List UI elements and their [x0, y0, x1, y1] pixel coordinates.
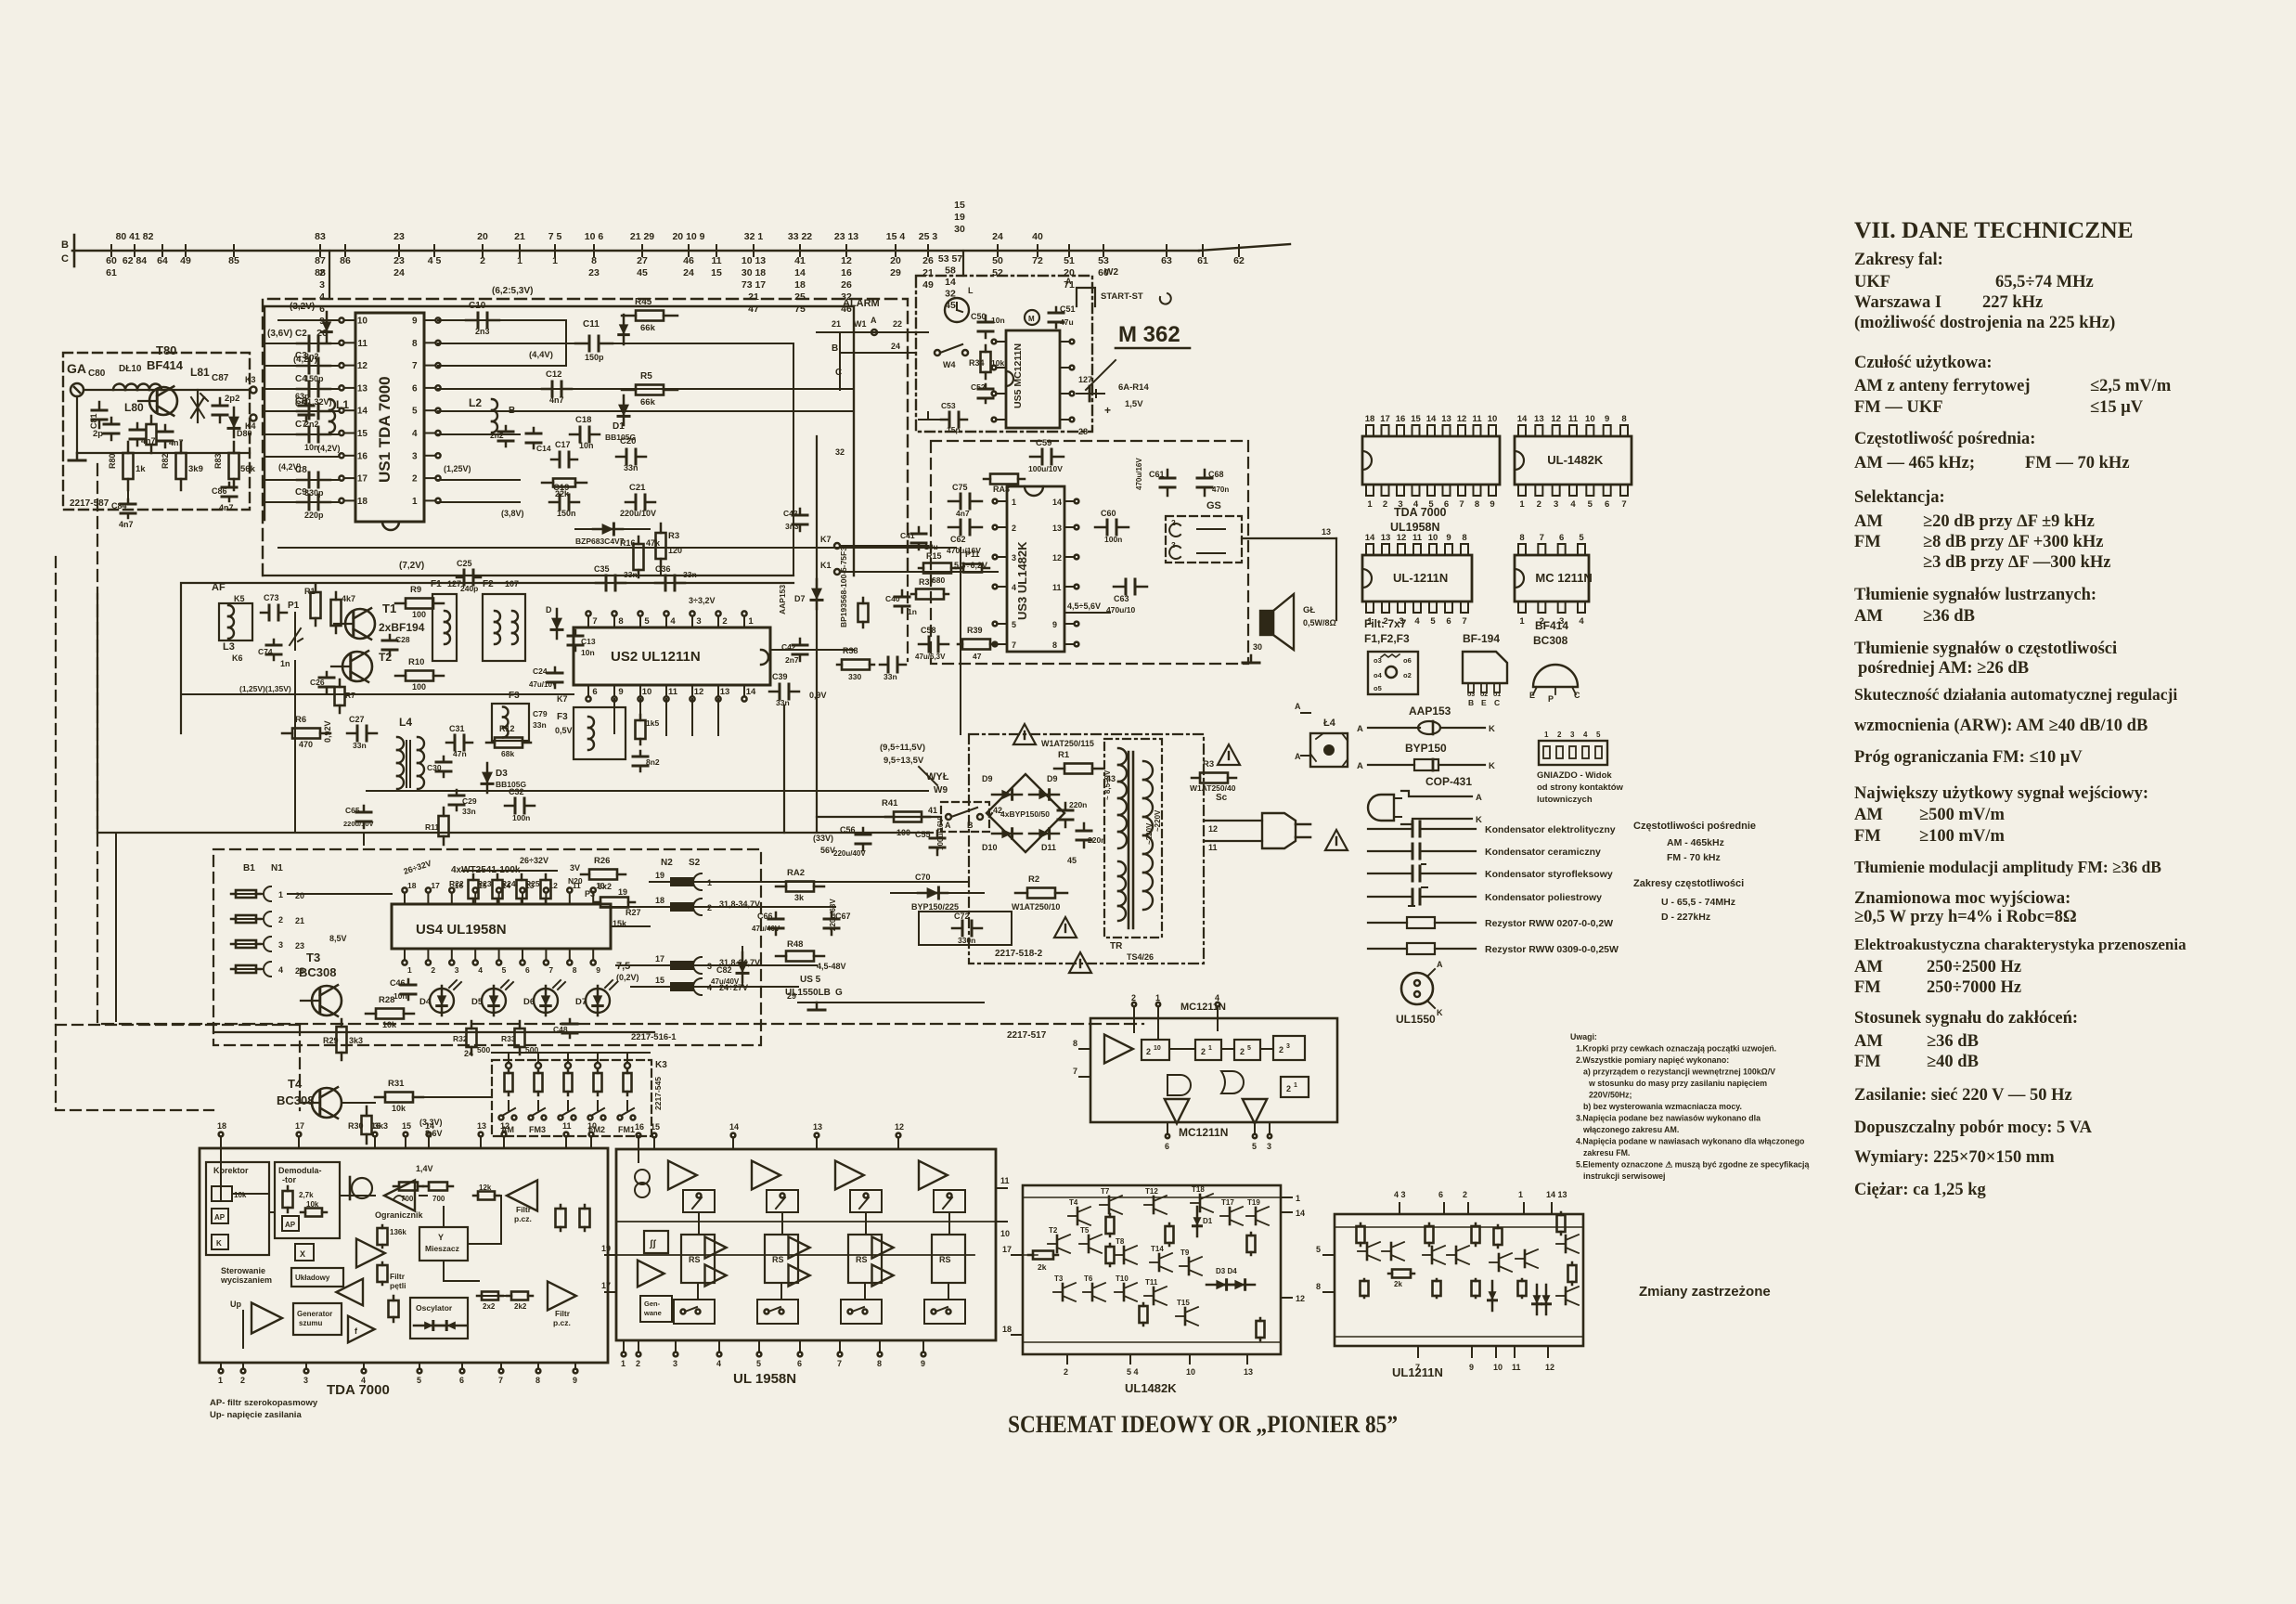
svg-text:≥100 mV/m: ≥100 mV/m: [1919, 827, 2005, 846]
diode D8 BYP150/225: [891, 892, 984, 894]
svg-text:Sc: Sc: [1216, 793, 1228, 803]
filter F1 127: [432, 594, 457, 661]
module box 2217-517 outline: [97, 464, 1143, 1024]
svg-text:107: 107: [505, 579, 519, 589]
svg-text:2: 2: [1012, 524, 1016, 533]
resistor R30 3k3: [366, 1106, 368, 1116]
UL1958N cell 3 bottom switch: [841, 1300, 882, 1324]
svg-text:13: 13: [1534, 414, 1544, 424]
svg-text:9: 9: [1446, 533, 1451, 543]
svg-text:5: 5: [1252, 1142, 1257, 1151]
svg-text:12: 12: [1296, 1294, 1305, 1303]
svg-text:T15: T15: [1177, 1299, 1190, 1307]
svg-text:RS: RS: [856, 1255, 868, 1264]
svg-text:AP- filtr szerokopasmowy: AP- filtr szerokopasmowy: [210, 1398, 318, 1408]
UL1482K diodes: [1206, 1284, 1236, 1287]
capacitor C57 220n pair: [1064, 803, 1067, 810]
svg-text:12k: 12k: [479, 1184, 492, 1192]
diode zener US5: [742, 952, 744, 982]
capacitor C75 4n7: [948, 500, 961, 503]
svg-text:500: 500: [477, 1045, 490, 1054]
filter F2 107: [483, 594, 525, 661]
svg-text:5.Elementy oznaczone ⚠ musz: 5.Elementy oznaczone ⚠ muszą być zgodne …: [1576, 1160, 1809, 1170]
svg-text:9: 9: [921, 1359, 925, 1368]
svg-text:220u/40V: 220u/40V: [833, 849, 866, 858]
svg-text:8: 8: [1073, 1039, 1077, 1048]
svg-text:Oscylator: Oscylator: [416, 1303, 453, 1313]
svg-text:o2: o2: [1403, 671, 1412, 679]
svg-text:2: 2: [412, 474, 418, 485]
svg-text:C35: C35: [594, 564, 610, 574]
svg-text:10n: 10n: [581, 648, 595, 657]
svg-text:0,5V: 0,5V: [555, 726, 573, 735]
svg-text:C63: C63: [1114, 594, 1129, 603]
svg-text:C24: C24: [533, 666, 548, 676]
svg-text:A: A: [1295, 702, 1301, 711]
inductor L1: [329, 399, 335, 410]
transistor T18 UL1482K: [1199, 1195, 1202, 1211]
svg-text:R1: R1: [304, 587, 316, 596]
svg-text:1k: 1k: [135, 464, 146, 474]
UL1958N sigma box: [644, 1231, 668, 1253]
svg-text:12: 12: [500, 1121, 510, 1131]
inductor L80: [113, 384, 125, 391]
capacitor C24 47u: [554, 667, 557, 673]
svg-text:220u/10V: 220u/10V: [343, 820, 374, 828]
svg-text:3: 3: [1267, 1142, 1271, 1151]
switch W4: [935, 350, 940, 356]
svg-text:2: 2: [1557, 731, 1562, 739]
svg-text:15: 15: [651, 1122, 660, 1132]
svg-text:C9: C9: [295, 487, 307, 498]
svg-text:2: 2: [431, 965, 435, 975]
svg-text:C27: C27: [349, 715, 365, 724]
svg-text:FM — UKF: FM — UKF: [1854, 398, 1943, 417]
wire 7,2V rail upper: [278, 547, 956, 549]
capacitor C12 4n7: [542, 388, 552, 391]
svg-text:3V: 3V: [570, 863, 580, 873]
svg-text:F3: F3: [557, 712, 568, 722]
svg-text:US3 UL1482K: US3 UL1482K: [1015, 541, 1029, 620]
UL1958N cell 1 amp: [668, 1161, 697, 1190]
capacitor C87: [219, 398, 222, 406]
svg-text:14 13: 14 13: [1546, 1190, 1567, 1199]
TDA7000 amp small: [336, 1279, 363, 1306]
UL1482K resistors: [1028, 1254, 1033, 1257]
svg-text:Kondensator styrofleksowy: Kondensator styrofleksowy: [1485, 869, 1613, 880]
svg-text:D3 D4: D3 D4: [1216, 1267, 1237, 1275]
svg-text:11: 11: [562, 1121, 572, 1131]
svg-text:Ł4: Ł4: [1323, 718, 1336, 729]
svg-text:Elektroakustyczna charakterys: Elektroakustyczna charakterystyka przeno…: [1854, 936, 2186, 953]
svg-text:T18: T18: [1192, 1185, 1205, 1194]
svg-text:1: 1: [1012, 498, 1016, 507]
resistor R2b 4k7: [335, 592, 338, 600]
svg-text:G: G: [835, 988, 843, 998]
svg-text:C: C: [61, 253, 69, 265]
resistor R3 120: [660, 524, 663, 533]
svg-text:C39: C39: [772, 672, 788, 681]
svg-text:2217-516-1: 2217-516-1: [631, 1032, 677, 1042]
svg-text:2n2: 2n2: [490, 431, 504, 440]
svg-text:o2: o2: [1480, 692, 1488, 698]
svg-text:ʃʃ: ʃʃ: [649, 1239, 656, 1249]
inductor L2: [492, 399, 497, 410]
transistor T2 UL1482K: [1056, 1235, 1059, 1252]
capacitor C60 100n: [1095, 526, 1107, 529]
connector GNIAZDO: [1539, 741, 1607, 765]
svg-text:C31: C31: [449, 724, 465, 733]
svg-text:w stosunku do masy przy za: w stosunku do masy przy zasilaniu napięc…: [1588, 1079, 1767, 1088]
svg-text:Generator: Generator: [297, 1310, 332, 1318]
svg-text:P11: P11: [965, 550, 980, 559]
svg-text:3: 3: [303, 1376, 308, 1385]
svg-text:2n7: 2n7: [785, 655, 799, 665]
resistor R1 WTAT250/115: [1054, 768, 1064, 770]
svg-text:K5: K5: [234, 594, 245, 603]
svg-text:GNIAZDO - Widok: GNIAZDO - Widok: [1537, 770, 1612, 781]
svg-text:100: 100: [412, 682, 426, 692]
svg-text:8x2: 8x2: [598, 882, 612, 891]
svg-text:5: 5: [1596, 731, 1601, 739]
svg-text:17: 17: [295, 1121, 304, 1131]
op-amp U5 US5 MC1211N: [1006, 330, 1060, 428]
harness tick numbers: [106, 231, 1245, 315]
svg-text:10n: 10n: [991, 316, 1005, 325]
svg-text:32 1: 32 1: [744, 231, 764, 242]
svg-text:Rezystor RWW 0207-0-0,2W: Rezystor RWW 0207-0-0,2W: [1485, 918, 1613, 929]
wire AM bus vertical: [115, 833, 117, 1021]
antenna jack GA: [71, 383, 84, 396]
svg-text:3: 3: [278, 940, 283, 950]
svg-text:2: 2: [722, 616, 727, 627]
resistor R2 WTAT250/10: [1015, 892, 1027, 895]
svg-text:6: 6: [459, 1376, 464, 1385]
svg-text:~ 8,5÷9V: ~ 8,5÷9V: [1103, 770, 1112, 800]
svg-text:Czułość użytkowa:: Czułość użytkowa:: [1854, 354, 1993, 372]
resistor R33 500: [519, 1021, 522, 1028]
svg-text:L4: L4: [399, 716, 412, 729]
resistor R1b: [315, 585, 317, 592]
transistor T3 BC308: [312, 986, 342, 1015]
svg-text:16: 16: [1396, 414, 1406, 424]
UL1958N cell 3 RS box: [848, 1235, 882, 1283]
capacitor C81: [110, 418, 113, 424]
warning triangle plug: [1325, 830, 1348, 850]
svg-text:4: 4: [319, 291, 325, 303]
capacitor C61 470u/16V: [1167, 470, 1169, 478]
capacitor C31 47n: [446, 742, 455, 744]
svg-text:7: 7: [1459, 499, 1464, 510]
svg-text:33 22: 33 22: [788, 231, 812, 242]
svg-text:wane: wane: [643, 1309, 662, 1317]
svg-text:FM1: FM1: [618, 1125, 635, 1134]
transistor T8 UL1482K: [1123, 1247, 1126, 1263]
svg-text:T4: T4: [1069, 1198, 1078, 1207]
svg-text:C84: C84: [111, 501, 127, 511]
svg-text:UL1958N: UL1958N: [1390, 521, 1440, 534]
svg-text:GŁ: GŁ: [1303, 605, 1315, 615]
svg-text:M 362: M 362: [1118, 322, 1180, 347]
svg-text:D4: D4: [419, 997, 432, 1007]
svg-text:15p: 15p: [947, 425, 961, 434]
svg-text:330n: 330n: [958, 936, 975, 945]
svg-text:B: B: [509, 406, 515, 416]
svg-text:10k: 10k: [392, 1104, 406, 1113]
svg-text:17: 17: [357, 474, 368, 485]
svg-text:2: 2: [1064, 1367, 1068, 1377]
capacitor C26/R7: [326, 672, 329, 678]
svg-text:14: 14: [945, 277, 956, 288]
svg-text:1n: 1n: [908, 607, 917, 616]
TDA7000 korektor box: [206, 1162, 269, 1255]
svg-text:150n: 150n: [557, 509, 576, 518]
svg-text:8: 8: [412, 339, 418, 349]
svg-text:AP: AP: [214, 1213, 226, 1222]
svg-text:SCHEMAT IDEOWY OR „PIONIER: SCHEMAT IDEOWY OR „PIONIER 85”: [1008, 1411, 1398, 1438]
UL1958N cell 2 amp: [752, 1161, 780, 1190]
wire mid bus: [97, 594, 98, 833]
svg-text:C75: C75: [952, 483, 968, 492]
transistor T4 UL1482K: [1077, 1208, 1079, 1224]
svg-text:22: 22: [893, 319, 902, 329]
UL1958N cell 1 bottom switch: [674, 1300, 715, 1324]
svg-text:1,4V: 1,4V: [416, 1164, 433, 1173]
svg-text:A: A: [1357, 724, 1363, 734]
svg-text:6: 6: [797, 1359, 802, 1368]
svg-text:1: 1: [1518, 1190, 1523, 1199]
svg-text:~220V: ~220V: [1154, 809, 1162, 832]
svg-text:3k9: 3k9: [188, 464, 203, 474]
svg-text:33n: 33n: [533, 720, 547, 730]
capacitor C34 8n2: [639, 751, 642, 757]
oscillator coil F3b: [574, 707, 626, 759]
US1 pins: [344, 319, 355, 321]
svg-text:4,5-48V: 4,5-48V: [817, 962, 846, 971]
svg-text:11: 11: [1208, 843, 1218, 852]
svg-text:B: B: [1468, 698, 1474, 707]
svg-text:R34: R34: [969, 358, 985, 368]
package TDA7000/UL1958N DIP18: [1362, 436, 1500, 485]
resistor R83 56k: [233, 442, 236, 453]
svg-text:AM z anteny ferrytowej: AM z anteny ferrytowej: [1854, 377, 2031, 395]
TDA7000 ogranicznik amp: [384, 1181, 415, 1211]
op-amp U4 US4 UL1958N IC body: [392, 904, 611, 949]
svg-text:W1AT250/40: W1AT250/40: [1190, 783, 1236, 793]
svg-text:D11: D11: [1041, 843, 1056, 852]
svg-text:GA: GA: [67, 361, 86, 376]
TDA7000 resistor v: [393, 1296, 395, 1300]
capacitor C73 1000: [261, 612, 269, 614]
svg-text:47k: 47k: [646, 538, 661, 548]
transistor T7 UL1482K: [1108, 1197, 1111, 1213]
svg-text:9: 9: [1490, 499, 1494, 510]
svg-text:1: 1: [621, 1359, 626, 1368]
svg-text:41: 41: [928, 806, 937, 815]
svg-text:1k5: 1k5: [646, 718, 659, 728]
svg-text:(1,25V): (1,25V): [444, 464, 471, 473]
svg-text:11: 11: [1512, 1363, 1521, 1372]
svg-text:C50: C50: [971, 312, 987, 321]
svg-text:10: 10: [1000, 1229, 1010, 1238]
svg-text:1: 1: [1519, 499, 1525, 510]
capacitor C86 4n7: [228, 483, 231, 487]
svg-text:lutowniczych: lutowniczych: [1537, 795, 1593, 805]
svg-text:250÷7000 Hz: 250÷7000 Hz: [1927, 978, 2021, 997]
potentiometer P11: [956, 567, 963, 570]
svg-text:C72: C72: [954, 912, 970, 921]
svg-text:C28: C28: [395, 635, 410, 644]
wire US1 left pin row 4: [264, 433, 339, 435]
capacitor C8: [297, 479, 309, 482]
svg-text:1: 1: [748, 616, 754, 627]
svg-text:7: 7: [837, 1359, 842, 1368]
capacitor C32 100n: [505, 805, 515, 808]
wire US1 left pin row 6: [264, 479, 339, 481]
resistor R34 10k: [985, 345, 987, 352]
capacitor C40 1n: [901, 590, 904, 597]
transistor T5 UL1482K: [1088, 1235, 1090, 1252]
svg-text:R22: R22: [449, 879, 464, 888]
svg-text:7: 7: [1415, 1363, 1420, 1372]
svg-text:(33V): (33V): [813, 834, 833, 843]
capacitor C58 47u/6,3V: [919, 643, 929, 646]
svg-text:C10: C10: [469, 301, 486, 311]
svg-text:p.cz.: p.cz.: [514, 1214, 532, 1223]
svg-text:7: 7: [412, 361, 418, 371]
svg-text:2: 2: [636, 1359, 640, 1368]
capacitor C57b 33n: [880, 664, 888, 666]
svg-text:UL1550: UL1550: [1396, 1013, 1436, 1026]
svg-text:17: 17: [431, 881, 440, 890]
svg-text:RS: RS: [939, 1255, 951, 1264]
op-amp U1 US1 TDA7000 IC body: [355, 313, 424, 522]
warning triangle D8: [1054, 917, 1077, 938]
wire US1 left pin row 7: [264, 501, 339, 503]
svg-text:3: 3: [1012, 553, 1016, 563]
UL1958N cell 1 switch box: [683, 1190, 715, 1212]
UL1958N cell 3 amp: [835, 1161, 864, 1190]
svg-text:33n: 33n: [462, 807, 476, 816]
svg-text:2p: 2p: [93, 429, 103, 439]
svg-text:3: 3: [455, 965, 459, 975]
svg-text:Selektancja:: Selektancja:: [1854, 488, 1945, 507]
svg-text:US4 UL1958N: US4 UL1958N: [416, 922, 507, 938]
svg-text:C60: C60: [1101, 509, 1116, 518]
transformer TR: [1104, 739, 1162, 938]
svg-text:240p: 240p: [460, 584, 478, 593]
transistor T15 UL1482K: [1184, 1308, 1187, 1325]
resistor R16 47k trim: [638, 537, 640, 544]
svg-text:8: 8: [1475, 499, 1479, 510]
UL1211N resistors: [1360, 1223, 1362, 1226]
svg-text:3k: 3k: [794, 893, 805, 902]
svg-text:T80: T80: [156, 343, 176, 357]
svg-text:23: 23: [295, 941, 304, 951]
svg-text:8: 8: [535, 1376, 540, 1385]
svg-text:COP-431: COP-431: [1425, 775, 1472, 788]
US4 pins bottom: [404, 949, 406, 960]
svg-text:K7: K7: [557, 694, 568, 704]
svg-text:BF-194: BF-194: [1463, 632, 1500, 645]
svg-text:S2: S2: [689, 858, 701, 868]
capacitor C82 4n7: [136, 423, 139, 430]
svg-text:T17: T17: [1221, 1198, 1234, 1207]
svg-text:R6: R6: [295, 715, 306, 725]
capacitor C53 15p: [941, 419, 949, 421]
wire K3 top link: [492, 1052, 650, 1054]
svg-text:5 4: 5 4: [1127, 1367, 1139, 1377]
svg-text:10: 10: [357, 317, 368, 327]
svg-text:BF414: BF414: [147, 358, 184, 372]
svg-text:C70: C70: [915, 873, 931, 882]
svg-text:Skuteczność działania automa: Skuteczność działania automatycznej regu…: [1854, 685, 2177, 704]
svg-text:C65: C65: [345, 806, 360, 815]
UL1958N cell 2 couple amps: [705, 1236, 727, 1258]
svg-text:8,5V: 8,5V: [329, 934, 347, 943]
svg-text:Mieszacz: Mieszacz: [425, 1244, 459, 1253]
svg-text:10: 10: [1493, 1363, 1503, 1372]
svg-text:R11: R11: [425, 822, 439, 832]
svg-text:15: 15: [954, 200, 965, 211]
svg-text:R31: R31: [388, 1079, 405, 1089]
svg-text:10k: 10k: [306, 1200, 319, 1209]
resistor R48 2x6: [776, 955, 786, 958]
svg-text:BYP150/225: BYP150/225: [911, 902, 959, 912]
svg-text:R3: R3: [668, 531, 679, 541]
svg-text:23: 23: [588, 267, 600, 278]
svg-text:14: 14: [746, 687, 756, 697]
capacitor C74 1n: [273, 640, 276, 645]
svg-text:C62: C62: [950, 535, 966, 544]
svg-text:100: 100: [412, 610, 426, 619]
svg-text:N2: N2: [661, 858, 673, 868]
svg-text:K1: K1: [820, 561, 832, 570]
svg-text:8: 8: [618, 616, 623, 627]
svg-text:4n7: 4n7: [219, 503, 234, 512]
svg-text:14: 14: [1052, 498, 1062, 507]
svg-text:23 13: 23 13: [834, 231, 858, 242]
svg-text:10n: 10n: [393, 991, 407, 1001]
svg-text:3: 3: [1570, 731, 1575, 739]
svg-text:C81: C81: [89, 413, 98, 429]
svg-text:X: X: [300, 1249, 305, 1259]
svg-text:Tłumienie sygnałów o często: Tłumienie sygnałów o częstotliwości: [1854, 640, 2117, 658]
module box FM front-end dashed: [263, 299, 908, 576]
varicap D80: [233, 407, 236, 437]
svg-text:2.Wszystkie pomiary napięć: 2.Wszystkie pomiary napięć wykonano:: [1576, 1055, 1729, 1065]
svg-text:C18: C18: [575, 415, 591, 425]
svg-text:13: 13: [1441, 414, 1451, 424]
svg-text:R30: R30: [348, 1121, 364, 1131]
svg-text:W1AT250/10: W1AT250/10: [1012, 902, 1060, 912]
svg-text:E: E: [1481, 698, 1487, 707]
svg-text:18: 18: [217, 1121, 226, 1131]
wire US2 bottom F3 link: [613, 699, 615, 733]
svg-text:T19: T19: [1247, 1198, 1260, 1207]
svg-text:7 5: 7 5: [548, 231, 562, 242]
svg-text:10: 10: [587, 1121, 597, 1131]
transistor T9 UL1482K: [1188, 1258, 1191, 1274]
block diagram MC1211N body: [1090, 1018, 1337, 1122]
capacitor C52 cap: [985, 384, 987, 389]
svg-text:P: P: [1548, 694, 1554, 704]
svg-text:6: 6: [412, 383, 418, 394]
svg-text:K3: K3: [655, 1060, 667, 1070]
svg-text:(6,2:5,3V): (6,2:5,3V): [492, 286, 533, 296]
svg-text:(4,2V): (4,2V): [317, 444, 341, 453]
svg-text:1: 1: [407, 965, 412, 975]
